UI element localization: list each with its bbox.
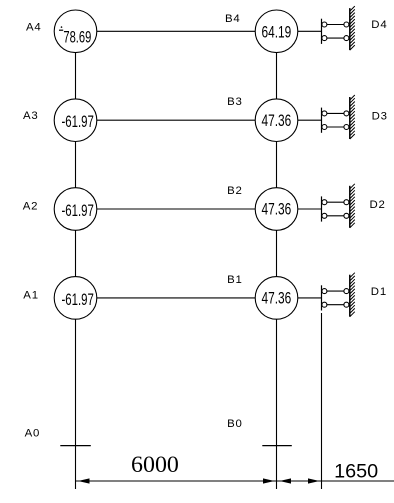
svg-text:B1: B1	[227, 274, 243, 286]
svg-text:A2: A2	[23, 201, 39, 213]
dimension line	[76, 480, 394, 482]
node B1 circle	[255, 277, 298, 320]
node A3 circle	[54, 99, 97, 142]
svg-text:-61.97: -61.97	[62, 113, 94, 131]
svg-text:78.69: 78.69	[63, 29, 91, 47]
wire column A segment 4	[75, 319, 77, 489]
svg-text:D3: D3	[372, 111, 388, 123]
node A4 circle	[54, 10, 97, 53]
svg-text:64.19: 64.19	[262, 24, 292, 42]
wire beam B1-support D1	[298, 297, 322, 299]
support D2 (double-link roller on wall)	[322, 184, 355, 228]
wire column B segment 3	[276, 230, 278, 276]
wire beam B2-support D2	[298, 208, 322, 210]
dimension arrow 6000 right	[263, 478, 275, 483]
svg-text:1650: 1650	[334, 461, 378, 483]
svg-text:47.36: 47.36	[262, 201, 292, 219]
svg-text:B0: B0	[227, 418, 243, 430]
svg-text:B3: B3	[227, 96, 243, 108]
svg-text:47.36: 47.36	[262, 290, 292, 308]
wire column B segment 1	[276, 53, 278, 99]
wire extension line below support D1	[321, 313, 323, 489]
svg-text:6000: 6000	[131, 452, 179, 477]
wire column B segment 4	[276, 319, 278, 489]
support D4 (double-link roller on wall)	[322, 6, 355, 50]
svg-text:-61.97: -61.97	[62, 291, 94, 309]
base tick at B0	[262, 445, 292, 447]
wire beam A3-B3	[97, 119, 255, 121]
wire beam A4-B4	[97, 30, 255, 32]
wire column A segment 3	[75, 230, 77, 276]
base tick at A0	[60, 445, 91, 447]
node B2 circle	[255, 188, 298, 231]
svg-text:B2: B2	[227, 185, 243, 197]
svg-text:-61.97: -61.97	[62, 202, 94, 220]
value label A4 stray dot	[61, 26, 63, 28]
dimension arrow 1650 left	[280, 478, 292, 483]
wire beam A2-B2	[97, 208, 255, 210]
svg-text:A4: A4	[26, 22, 42, 34]
svg-text:D1: D1	[371, 286, 387, 298]
svg-text:A3: A3	[23, 110, 39, 122]
value label A4 minus sign	[59, 29, 63, 31]
node B3 circle	[255, 99, 298, 142]
svg-text:D2: D2	[370, 199, 386, 211]
svg-text:A0: A0	[25, 428, 41, 440]
wire column A segment 2	[75, 142, 77, 188]
node B4 circle	[255, 10, 298, 53]
node A1 circle	[54, 277, 97, 320]
wire column A segment 1	[75, 53, 77, 99]
wire beam B3-support D3	[298, 119, 322, 121]
svg-text:A1: A1	[23, 290, 39, 302]
svg-text:47.36: 47.36	[262, 112, 292, 130]
support D1 (double-link roller on wall)	[322, 273, 355, 317]
svg-text:B4: B4	[225, 13, 241, 25]
support D3 (double-link roller on wall)	[322, 95, 355, 139]
node A2 circle	[54, 188, 97, 231]
wire beam A1-B1	[97, 297, 255, 299]
svg-text:D4: D4	[371, 19, 387, 31]
wire column B segment 2	[276, 142, 278, 188]
dimension arrow 1650 right	[308, 478, 320, 483]
dimension arrow 6000 left	[78, 478, 90, 483]
wire beam B4-support D4	[298, 30, 322, 32]
